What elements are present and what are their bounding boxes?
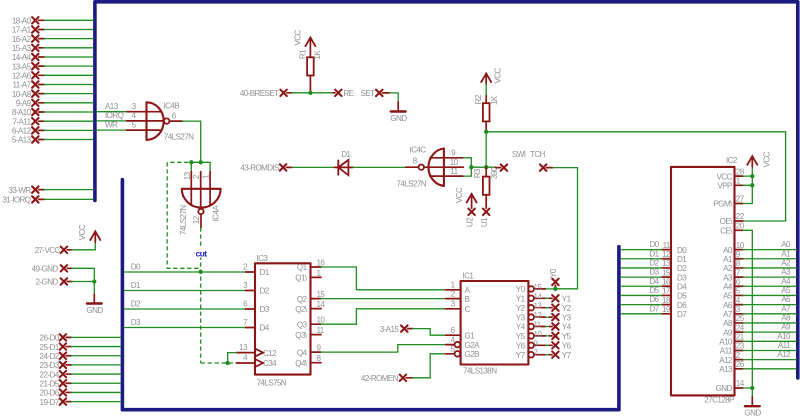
svg-text:R1: R1 xyxy=(299,49,308,59)
pinhead SET xyxy=(361,89,390,98)
svg-text:22: 22 xyxy=(736,212,745,221)
svg-text:16: 16 xyxy=(662,277,671,286)
svg-text:21: 21 xyxy=(736,333,745,342)
wire R2 junction down to IC4C row xyxy=(485,132,487,167)
pinhead 10-A8 xyxy=(12,90,93,99)
supply VCC symbol left xyxy=(78,224,100,242)
net label D0 wire bus to IC3 xyxy=(124,262,255,272)
svg-text:A6: A6 xyxy=(781,295,791,304)
svg-text:D4: D4 xyxy=(677,282,687,291)
svg-text:20-D6: 20-D6 xyxy=(40,389,60,398)
svg-text:A10: A10 xyxy=(777,332,791,341)
pinhead 22-D4 xyxy=(40,370,121,379)
svg-text:9: 9 xyxy=(451,148,456,157)
svg-text:2-GND: 2-GND xyxy=(36,278,59,287)
dashed net cut - left segment xyxy=(167,162,199,268)
pinhead 27-VCC xyxy=(35,246,72,255)
svg-text:4: 4 xyxy=(736,296,741,305)
svg-text:IC1: IC1 xyxy=(463,272,475,281)
pinhead 43-ROMDIS xyxy=(240,164,292,173)
svg-text:TCH: TCH xyxy=(530,150,546,159)
svg-text:Y6: Y6 xyxy=(562,342,572,351)
IC4B output pin 6 stub xyxy=(169,120,182,122)
supply VCC symbol above IC2 xyxy=(747,151,771,167)
svg-text:2: 2 xyxy=(736,351,741,360)
pinhead 20-D6 xyxy=(40,389,121,398)
svg-text:D1: D1 xyxy=(649,249,659,258)
svg-text:49-GND: 49-GND xyxy=(32,265,59,274)
svg-text:Y2: Y2 xyxy=(562,304,572,313)
svg-text:D1: D1 xyxy=(677,255,687,264)
svg-text:G2B: G2B xyxy=(465,350,480,359)
bus 2 (data bus) left-bottom-right xyxy=(122,180,619,410)
svg-text:SET: SET xyxy=(361,89,376,98)
wire ROMDIS to D1 xyxy=(292,166,334,168)
svg-text:A: A xyxy=(465,286,471,295)
svg-text:13: 13 xyxy=(183,171,192,180)
svg-text:D2: D2 xyxy=(260,287,270,296)
svg-text:C: C xyxy=(465,305,471,314)
svg-text:GND: GND xyxy=(86,306,103,315)
svg-text:R2: R2 xyxy=(474,94,483,104)
svg-text:13: 13 xyxy=(534,302,543,311)
svg-text:10-A8: 10-A8 xyxy=(12,90,32,99)
pinhead 12-A6 xyxy=(12,72,93,81)
svg-text:D0: D0 xyxy=(131,262,141,271)
svg-text:D5: D5 xyxy=(677,292,687,301)
IC3 right pin stubs xyxy=(311,267,322,363)
node junction IC4C inputs xyxy=(469,165,473,169)
svg-text:4: 4 xyxy=(243,354,248,363)
svg-text:1: 1 xyxy=(736,177,741,186)
svg-text:23: 23 xyxy=(736,342,745,351)
svg-text:14: 14 xyxy=(736,379,745,388)
svg-text:D4: D4 xyxy=(260,324,270,333)
svg-text:Q2\: Q2\ xyxy=(295,305,308,314)
IC2 27C128P body xyxy=(671,156,738,405)
wire IC4A input hookup xyxy=(191,162,210,171)
wire CE to ground rail xyxy=(743,230,752,388)
svg-text:6: 6 xyxy=(172,112,177,121)
pinhead 7-A11 xyxy=(13,117,94,126)
svg-text:12: 12 xyxy=(534,311,543,320)
svg-text:31-IORQ: 31-IORQ xyxy=(2,196,30,205)
node junction on D0 wire xyxy=(199,270,203,274)
svg-text:D2: D2 xyxy=(677,264,687,273)
net label D1 wire bus to IC3 xyxy=(124,281,255,291)
wire 2-GND to ground xyxy=(72,282,94,295)
svg-text:6: 6 xyxy=(243,300,248,309)
supply VCC symbol above R1 xyxy=(294,30,316,58)
svg-text:8: 8 xyxy=(413,156,418,165)
net label WR wire from bus to IC4B pin 5 xyxy=(97,120,161,130)
svg-text:Y2: Y2 xyxy=(516,304,526,313)
svg-text:A2: A2 xyxy=(781,259,791,268)
svg-text:Y1: Y1 xyxy=(562,295,572,304)
pinhead 5-A13 xyxy=(12,136,93,145)
svg-text:D3: D3 xyxy=(649,268,659,277)
wire BRESET to RE xyxy=(292,92,333,94)
node junctions above IC4A xyxy=(189,160,203,164)
svg-text:A3: A3 xyxy=(723,273,733,282)
R2 lower pin xyxy=(485,121,487,131)
svg-text:7-A11: 7-A11 xyxy=(13,117,32,126)
svg-text:R3: R3 xyxy=(473,168,482,178)
svg-text:A0: A0 xyxy=(781,240,791,249)
svg-text:40-BRESET: 40-BRESET xyxy=(240,89,279,98)
IC3 clock triangles xyxy=(255,349,263,367)
svg-text:13: 13 xyxy=(662,259,671,268)
gate IC4B 74LS27N (3-input NOR) xyxy=(147,102,195,142)
svg-text:1K: 1K xyxy=(313,50,322,60)
wire 27-VCC to supply xyxy=(72,242,95,250)
svg-text:Y3: Y3 xyxy=(516,313,526,322)
IC4A output pin 12 stub xyxy=(200,214,202,227)
svg-text:VPP: VPP xyxy=(717,182,732,191)
svg-text:IC2: IC2 xyxy=(726,156,738,165)
svg-text:3: 3 xyxy=(451,300,456,309)
svg-text:2: 2 xyxy=(192,174,201,179)
wire GND pin to ground xyxy=(743,388,752,397)
svg-text:19: 19 xyxy=(662,305,671,314)
svg-text:A3: A3 xyxy=(781,268,791,277)
svg-text:D1: D1 xyxy=(341,150,351,159)
svg-text:A5: A5 xyxy=(723,292,733,301)
R1 lower pin xyxy=(309,76,311,93)
svg-text:1: 1 xyxy=(451,281,456,290)
svg-text:A13: A13 xyxy=(719,365,733,374)
svg-text:33-WR: 33-WR xyxy=(8,186,31,195)
svg-text:7: 7 xyxy=(243,318,248,327)
svg-text:Y0: Y0 xyxy=(516,285,526,294)
pinhead 3-A15 xyxy=(380,325,413,334)
gate IC4C 74LS27N (mirrored) xyxy=(397,146,464,189)
svg-text:A1: A1 xyxy=(781,249,791,258)
node junction IC2 pin28 xyxy=(750,174,754,178)
svg-text:3: 3 xyxy=(736,305,741,314)
svg-text:G1: G1 xyxy=(465,331,476,340)
pinhead 24-D2 xyxy=(40,352,121,361)
svg-text:A2: A2 xyxy=(723,264,733,273)
svg-text:D7: D7 xyxy=(677,310,687,319)
svg-text:13-A5: 13-A5 xyxy=(12,62,32,71)
ground symbol near SET xyxy=(390,102,407,123)
svg-text:D3: D3 xyxy=(677,273,687,282)
wire IC4B output to IC4A inputs xyxy=(182,121,200,162)
svg-text:15: 15 xyxy=(662,268,671,277)
svg-text:A13: A13 xyxy=(105,102,119,111)
node junction IC2 pin1 xyxy=(750,183,754,187)
svg-text:CE\: CE\ xyxy=(720,227,733,236)
svg-text:9: 9 xyxy=(534,339,539,348)
IC4C pin numbers 9 10 11 xyxy=(450,148,459,176)
IC1 output pin names numbers bubbles stubs xyxy=(516,283,546,360)
svg-text:Q3\: Q3\ xyxy=(295,331,308,340)
svg-text:28: 28 xyxy=(736,167,745,176)
svg-text:6: 6 xyxy=(451,326,456,335)
svg-text:D1: D1 xyxy=(260,268,270,277)
svg-text:VCC: VCC xyxy=(455,187,464,203)
svg-text:VCC: VCC xyxy=(78,224,87,240)
node junction under R2 xyxy=(484,130,488,134)
svg-text:Y7: Y7 xyxy=(516,351,526,360)
IC4A pin numbers 13 2 1 and 12 xyxy=(183,171,211,224)
supply VCC symbol above R2 xyxy=(481,68,503,85)
svg-text:6: 6 xyxy=(736,277,741,286)
svg-text:Y4: Y4 xyxy=(562,323,572,332)
svg-text:27-VCC: 27-VCC xyxy=(35,246,61,255)
pinhead Y0 (rotated) xyxy=(549,268,558,289)
svg-text:A4: A4 xyxy=(723,282,733,291)
pinhead 33-WR xyxy=(8,186,93,195)
svg-text:11: 11 xyxy=(534,321,542,330)
node junction at C34 xyxy=(226,361,230,365)
svg-text:GND: GND xyxy=(390,114,407,123)
svg-text:RE: RE xyxy=(343,89,354,98)
svg-text:Q4\: Q4\ xyxy=(295,359,308,368)
svg-text:A0: A0 xyxy=(723,246,733,255)
svg-text:1: 1 xyxy=(201,174,210,179)
wire SET to GND xyxy=(390,93,399,102)
svg-text:Y3: Y3 xyxy=(562,313,572,322)
wire IC4C pin 11 jog xyxy=(463,167,471,176)
wire VCC/VPP/PGM hookup xyxy=(743,167,752,204)
gate IC4A 74LS27N (rotated 90) xyxy=(182,172,221,215)
svg-text:Y5: Y5 xyxy=(562,332,572,341)
svg-text:13: 13 xyxy=(239,343,248,352)
IC3 left pin numbers xyxy=(239,263,248,363)
pinhead 8-A10 xyxy=(12,108,93,117)
svg-text:A11: A11 xyxy=(720,347,733,356)
svg-text:A11: A11 xyxy=(778,341,791,350)
pinhead 40-BRESET xyxy=(240,89,292,98)
svg-text:20: 20 xyxy=(736,222,745,231)
svg-text:9: 9 xyxy=(736,250,741,259)
svg-text:D3: D3 xyxy=(131,318,141,327)
svg-text:A12: A12 xyxy=(719,356,733,365)
supply VCC symbol above U2 xyxy=(455,187,477,208)
svg-text:D6: D6 xyxy=(649,295,659,304)
pinhead 49-GND xyxy=(32,265,72,274)
ground symbol under IC2 xyxy=(744,397,761,417)
svg-text:D2: D2 xyxy=(131,299,141,308)
svg-text:17-A1: 17-A1 xyxy=(12,26,32,35)
address bus labels A0-A12 xyxy=(777,240,791,359)
svg-text:11: 11 xyxy=(450,167,458,176)
svg-text:5-A13: 5-A13 xyxy=(12,136,32,145)
svg-text:IORQ: IORQ xyxy=(105,111,124,120)
svg-text:Q2: Q2 xyxy=(297,295,308,304)
IC3 74LS75N body xyxy=(255,254,311,388)
net label A13 wire from bus to IC4B pin 3 xyxy=(97,102,161,112)
pinhead 9-A9 xyxy=(16,99,93,108)
svg-text:9-A9: 9-A9 xyxy=(16,99,32,108)
svg-text:17: 17 xyxy=(662,287,671,296)
svg-text:Y0: Y0 xyxy=(549,268,558,278)
svg-text:IC4A: IC4A xyxy=(212,205,221,222)
svg-text:7: 7 xyxy=(736,268,741,277)
svg-text:19-D7: 19-D7 xyxy=(40,398,60,407)
svg-text:A9: A9 xyxy=(781,323,791,332)
svg-text:cut: cut xyxy=(195,248,207,258)
svg-text:IC3: IC3 xyxy=(257,254,269,263)
resistor R3 xyxy=(473,166,499,194)
svg-text:27: 27 xyxy=(736,195,745,204)
svg-text:Q1: Q1 xyxy=(297,263,308,272)
svg-text:74LS138N: 74LS138N xyxy=(463,366,497,375)
wire Q1 to IC1 A xyxy=(321,267,446,290)
svg-text:B: B xyxy=(465,295,470,304)
svg-text:OE\: OE\ xyxy=(720,217,733,226)
pinhead 18-A0 xyxy=(12,17,93,26)
svg-text:74LS27N: 74LS27N xyxy=(179,205,188,235)
IC3 C34 pin stub xyxy=(237,362,256,364)
svg-text:WR: WR xyxy=(105,120,118,129)
node junction at R2/R3 xyxy=(484,165,488,169)
wire Q4 to IC1 G2A xyxy=(321,345,446,353)
svg-text:25-D1: 25-D1 xyxy=(40,343,60,352)
pinhead 6-A12 xyxy=(12,127,93,136)
dashed net cut - bottom segment xyxy=(201,362,237,364)
svg-text:74LS27N: 74LS27N xyxy=(164,132,194,141)
pinhead 19-D7 xyxy=(40,398,121,407)
svg-text:A8: A8 xyxy=(781,314,791,323)
wire ROMEN to IC1 G2B xyxy=(413,354,446,378)
IC3 left pin names xyxy=(260,268,278,368)
wire C12/C34 hookup xyxy=(228,353,237,363)
node junction under R1 xyxy=(308,91,312,95)
svg-text:Q3: Q3 xyxy=(297,320,308,329)
IC1 74LS138N body xyxy=(461,272,529,376)
svg-text:8: 8 xyxy=(736,259,741,268)
svg-text:A7: A7 xyxy=(723,310,733,319)
pinhead 13-A5 xyxy=(12,62,93,71)
svg-text:Y7: Y7 xyxy=(562,351,572,360)
svg-text:11-A7: 11-A7 xyxy=(13,81,32,90)
svg-text:Q1\: Q1\ xyxy=(295,274,308,283)
IC2 address pins A0-A13 xyxy=(719,241,745,374)
wire 49-GND down xyxy=(72,268,94,281)
svg-text:18: 18 xyxy=(662,296,671,305)
svg-text:1K: 1K xyxy=(490,95,499,105)
svg-text:74LS27N: 74LS27N xyxy=(397,179,427,188)
pinhead 23-D3 xyxy=(40,361,121,370)
svg-text:10: 10 xyxy=(736,241,745,250)
svg-text:24: 24 xyxy=(736,323,745,332)
svg-text:Y6: Y6 xyxy=(516,342,526,351)
svg-text:D2: D2 xyxy=(649,259,659,268)
svg-text:3-A15: 3-A15 xyxy=(380,325,400,334)
svg-text:15-A3: 15-A3 xyxy=(12,44,32,53)
IC4B pin numbers 3 4 5 xyxy=(132,102,137,130)
wire Q2 to IC1 B xyxy=(321,298,446,300)
IC2 left pin stubs and numbers xyxy=(662,241,671,314)
svg-text:U2: U2 xyxy=(466,217,475,227)
ground symbol left xyxy=(86,294,103,315)
pinheads Y1-Y7 xyxy=(546,295,572,360)
wire R2 junction to IC2 OE xyxy=(486,132,785,221)
svg-text:6-A12: 6-A12 xyxy=(12,127,32,136)
svg-text:10: 10 xyxy=(534,330,543,339)
net name cut xyxy=(193,248,209,258)
net label IORQ wire from bus to IC4B pin 4 xyxy=(97,111,164,121)
svg-text:C34: C34 xyxy=(263,359,277,368)
pinhead 21-D5 xyxy=(40,379,121,388)
svg-text:C12: C12 xyxy=(263,349,277,358)
svg-text:Q4: Q4 xyxy=(297,348,308,357)
svg-text:25: 25 xyxy=(736,314,745,323)
svg-text:A5: A5 xyxy=(781,286,791,295)
wires IC2 address pins to bus xyxy=(743,250,796,369)
IC3 right pin names and numbers xyxy=(295,259,325,368)
wire IC4C pin 9 jog xyxy=(463,158,471,167)
svg-text:A10: A10 xyxy=(719,338,733,347)
switch TCH contact xyxy=(530,150,553,171)
svg-text:3: 3 xyxy=(243,281,248,290)
svg-text:26-D0: 26-D0 xyxy=(40,334,60,343)
pinhead 14-A4 xyxy=(12,53,93,62)
dashed net cut - top segment xyxy=(167,161,188,163)
svg-text:A12: A12 xyxy=(777,350,791,359)
wire IC4C inputs to switch xyxy=(471,166,495,168)
diode D1 xyxy=(334,150,353,175)
svg-text:G2A: G2A xyxy=(465,341,481,350)
svg-text:A1: A1 xyxy=(723,255,733,264)
pinhead 2-GND xyxy=(36,278,72,287)
pinhead 15-A3 xyxy=(12,44,93,53)
wire Y0 output xyxy=(546,288,578,290)
dashed net cut - vertical segment xyxy=(200,228,202,364)
svg-text:15: 15 xyxy=(534,283,543,292)
svg-text:12: 12 xyxy=(662,250,671,259)
IC3 C12 pin stub xyxy=(237,352,256,354)
svg-text:VCC: VCC xyxy=(494,68,503,84)
svg-text:74LS75N: 74LS75N xyxy=(257,379,287,388)
svg-text:D6: D6 xyxy=(677,301,687,310)
svg-text:23-D3: 23-D3 xyxy=(40,361,60,370)
svg-text:24-D2: 24-D2 xyxy=(40,352,60,361)
pinhead 16-A2 xyxy=(12,35,93,44)
svg-text:Y4: Y4 xyxy=(516,323,526,332)
IC2 left pin names D0-D7 xyxy=(677,246,687,319)
svg-text:D4: D4 xyxy=(649,277,659,286)
svg-text:D3: D3 xyxy=(260,305,270,314)
svg-text:VCC: VCC xyxy=(763,151,772,167)
svg-text:2: 2 xyxy=(243,263,248,272)
svg-text:D5: D5 xyxy=(649,286,659,295)
svg-text:7: 7 xyxy=(534,349,539,358)
pinhead RE xyxy=(333,89,355,98)
pinhead 42-ROMEN xyxy=(361,374,413,383)
svg-text:14-A4: 14-A4 xyxy=(12,53,32,62)
pinhead 11-A7 xyxy=(13,81,94,90)
svg-text:12-A6: 12-A6 xyxy=(12,72,32,81)
IC2 GND pin xyxy=(716,379,745,393)
svg-text:VCC: VCC xyxy=(294,30,303,46)
svg-text:21-D5: 21-D5 xyxy=(40,379,60,388)
wire Q3 to IC1 C xyxy=(321,309,446,324)
pinhead 26-D0 xyxy=(40,334,121,343)
svg-text:SWI: SWI xyxy=(512,150,526,159)
svg-text:8-A10: 8-A10 xyxy=(12,108,32,117)
resistor R1 xyxy=(299,49,322,76)
net label D2 wire bus to IC3 xyxy=(124,299,255,309)
svg-text:Y1: Y1 xyxy=(516,295,526,304)
node junction GND wires xyxy=(92,279,96,283)
svg-text:16-A2: 16-A2 xyxy=(12,35,32,44)
wire A15 to IC1 G1 xyxy=(413,329,446,336)
svg-text:IC4C: IC4C xyxy=(410,146,427,155)
